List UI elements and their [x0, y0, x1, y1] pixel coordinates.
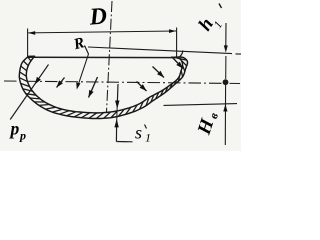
extension line left — [27, 29, 29, 58]
band hatching — [19, 57, 186, 119]
s1 upper arrow — [116, 84, 119, 101]
pressure arrow D — [137, 82, 147, 92]
h1 to dot connector — [225, 56, 227, 79]
pressure arrow E — [153, 67, 165, 78]
right tip hook — [180, 51, 183, 58]
s1 line through band — [116, 105, 119, 122]
leader p_p — [10, 65, 48, 120]
horizontal centerline — [4, 81, 240, 84]
center dot — [223, 79, 229, 85]
pressure arrow C — [89, 77, 98, 98]
back rim line / h1 reference — [88, 47, 232, 54]
svg-text:1: 1 — [145, 131, 151, 145]
dimension line D — [28, 31, 176, 33]
s tick — [145, 125, 147, 129]
svg-text:s: s — [135, 123, 142, 143]
back rim dash continuation — [236, 53, 242, 55]
s1 lower arrow + leader — [115, 126, 117, 142]
svg-text:p: p — [19, 129, 26, 143]
pressure arrow B — [57, 78, 65, 88]
pressure arrow F — [172, 57, 184, 69]
h tick — [219, 4, 222, 9]
dished head shell band — [19, 56, 187, 118]
Hv dimension line — [224, 82, 226, 145]
leader R — [85, 46, 89, 55]
svg-text:D: D — [88, 3, 108, 30]
bottom reference line — [164, 104, 238, 106]
extension line right — [176, 28, 178, 58]
front rim line — [28, 56, 179, 58]
svg-text:p: p — [9, 119, 20, 139]
vertical centerline — [106, 1, 112, 118]
h1 dimension line — [225, 23, 227, 46]
